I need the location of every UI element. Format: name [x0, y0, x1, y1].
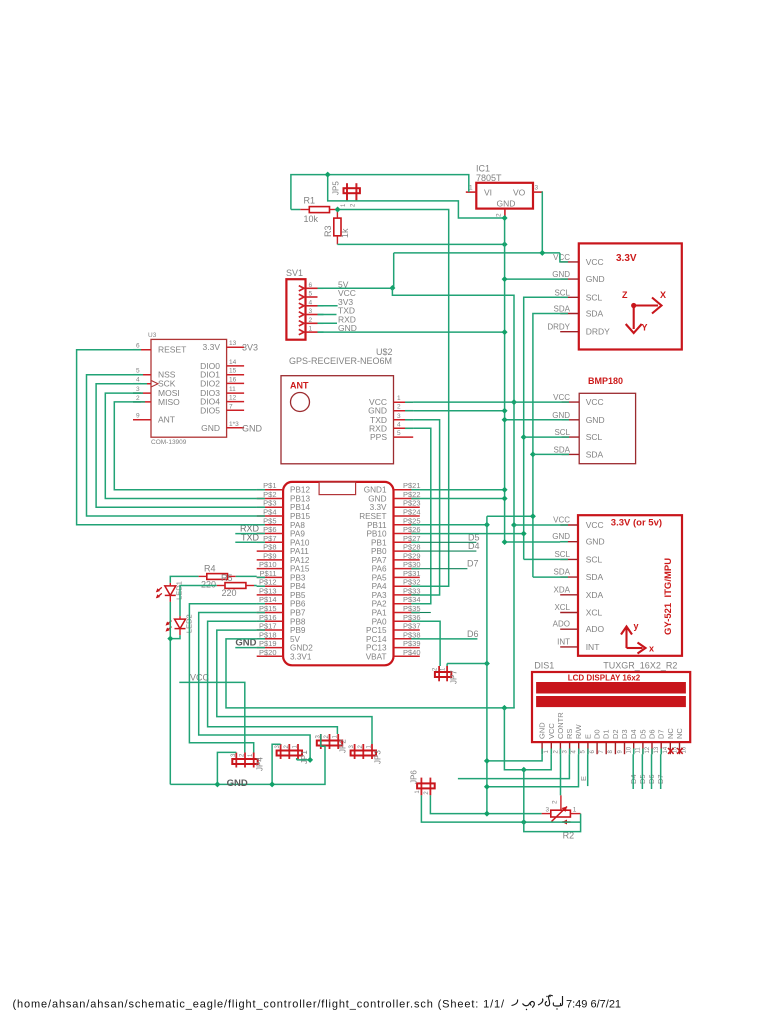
wire P$36 to JP7	[420, 621, 440, 666]
svg-text:IC1: IC1	[476, 164, 490, 174]
connector SV1	[286, 268, 357, 340]
svg-text:11: 11	[229, 386, 236, 393]
wire R1 right to P$32	[338, 210, 449, 587]
svg-text:JP4: JP4	[256, 757, 265, 771]
wire GPS GND	[413, 410, 504, 412]
svg-text:GND: GND	[242, 424, 263, 434]
resistor R1 10k	[300, 196, 337, 225]
svg-text:GND: GND	[586, 274, 605, 284]
wire NSS to P$4	[87, 375, 257, 516]
wire JP5 branch to IC1 GND	[328, 175, 505, 218]
svg-text:GND1: GND1	[364, 486, 387, 495]
svg-text:P$15: P$15	[259, 604, 277, 613]
junction BMP SDA	[530, 451, 536, 457]
IMU module GY-521 ITG/MPU	[552, 515, 682, 656]
svg-text:4: 4	[397, 421, 401, 428]
svg-text:GND: GND	[552, 411, 570, 420]
jumper JP2	[315, 734, 347, 753]
wire JP6 pin1 to R2 pin1	[421, 795, 580, 822]
wire to GY SDA	[533, 576, 560, 578]
svg-text:JP3: JP3	[374, 750, 383, 764]
junction R2 5V branch	[521, 819, 527, 825]
wire 5V to compass VCC	[559, 253, 561, 262]
wire SCL vertical	[524, 297, 561, 559]
junction P$25 jog	[484, 522, 490, 528]
potentiometer R2	[542, 795, 581, 840]
svg-text:NC: NC	[675, 728, 684, 739]
svg-text:R5: R5	[221, 573, 233, 583]
wire LCD D4 stub	[632, 754, 634, 789]
junction BMP GND / rail	[502, 417, 508, 423]
jumper JP4	[231, 753, 265, 772]
wire R3 bottom to GND rail	[337, 243, 504, 245]
svg-text:XDA: XDA	[554, 585, 571, 594]
wire overlaps on MCU right pin stubs	[411, 489, 420, 491]
junction P$26 SCL	[521, 531, 527, 537]
wire SDA vertical	[533, 314, 560, 578]
svg-text:D0: D0	[593, 729, 602, 739]
svg-text:P$24: P$24	[403, 508, 421, 517]
svg-text:GND: GND	[538, 722, 547, 739]
svg-text:1: 1	[544, 750, 550, 754]
wire LED1 cathode down	[169, 602, 171, 785]
svg-text:P$22: P$22	[403, 490, 421, 499]
wire RESET to P$5	[77, 350, 257, 525]
svg-text:GND: GND	[586, 415, 605, 425]
svg-text:4: 4	[572, 750, 578, 754]
wire TXD stub	[318, 314, 337, 316]
svg-text:PB9: PB9	[290, 626, 306, 635]
wire to BMP SCL	[524, 436, 562, 438]
svg-text:x: x	[649, 644, 654, 654]
svg-text:D2: D2	[611, 729, 620, 739]
wire GPS TXD to PA3	[413, 420, 439, 595]
svg-text:VO: VO	[513, 188, 526, 198]
svg-text:SDA: SDA	[586, 309, 604, 319]
svg-text:PB6: PB6	[290, 600, 306, 609]
jumper JP7	[433, 666, 459, 684]
svg-text:PA10: PA10	[290, 538, 310, 547]
svg-text:PB1: PB1	[371, 538, 387, 547]
svg-text:XDA: XDA	[586, 590, 604, 600]
svg-text:PA2: PA2	[372, 600, 387, 609]
resistor R4 220	[199, 564, 236, 590]
svg-text:P$25: P$25	[403, 516, 421, 525]
svg-text:1k: 1k	[340, 228, 350, 238]
wire to GY-521 VCC	[514, 524, 560, 526]
svg-text:P$10: P$10	[259, 560, 277, 569]
wire LCD GND	[487, 754, 542, 761]
svg-text:P$8: P$8	[263, 543, 276, 552]
wire overlaps on MCU left pin stubs	[257, 489, 265, 491]
wire P$17 to JP3	[217, 630, 372, 744]
svg-text:VCC: VCC	[190, 673, 210, 683]
svg-text:PA0: PA0	[372, 617, 387, 626]
voltage regulator IC1 7805T	[466, 164, 543, 219]
svg-text:P$5: P$5	[263, 516, 276, 525]
svg-text:PA3: PA3	[372, 591, 387, 600]
svg-text:8: 8	[608, 750, 614, 754]
wire R4 to P$11	[236, 575, 257, 577]
svg-text:7:49 6/7/21: 7:49 6/7/21	[566, 999, 621, 1011]
svg-text:P$1: P$1	[263, 481, 276, 490]
svg-text:SCL: SCL	[554, 428, 570, 437]
svg-text:3: 3	[397, 413, 401, 420]
svg-text:ANT: ANT	[290, 381, 309, 391]
svg-text:GY-521 ITG/MPU: GY-521 ITG/MPU	[663, 558, 674, 635]
svg-text:3.3V: 3.3V	[616, 253, 637, 264]
svg-text:PA9: PA9	[290, 530, 305, 539]
wire P$16 to JP2	[208, 621, 338, 734]
svg-text:P$7: P$7	[263, 534, 276, 543]
svg-text:y: y	[634, 621, 639, 631]
svg-text:PC14: PC14	[366, 635, 387, 644]
junction SV1 GND / rail	[502, 329, 508, 335]
svg-text:P$27: P$27	[403, 534, 421, 543]
wire P$25 row	[420, 524, 487, 526]
svg-text:E: E	[579, 776, 588, 781]
svg-text:SDA: SDA	[554, 568, 571, 577]
junction GND bracket JP1	[269, 781, 275, 787]
svg-text:LED1: LED1	[175, 581, 184, 600]
junction LED cathodes	[167, 636, 173, 642]
barometer BMP180	[552, 376, 635, 464]
svg-text:PB15: PB15	[290, 512, 310, 521]
wire 5V down to SV1	[393, 253, 395, 288]
svg-text:GND: GND	[227, 778, 248, 789]
svg-text:6: 6	[136, 343, 140, 350]
svg-text:PA8: PA8	[290, 521, 305, 530]
svg-text:P$13: P$13	[259, 586, 277, 595]
svg-text:PA7: PA7	[372, 556, 387, 565]
wire LED2 cathode join	[170, 635, 180, 639]
svg-text:PC13: PC13	[366, 644, 387, 653]
junction P$15 wire	[307, 757, 313, 763]
svg-text:PB8: PB8	[290, 617, 306, 626]
svg-text:D1: D1	[602, 729, 611, 739]
compass axis icon	[626, 298, 662, 334]
svg-text:VI: VI	[484, 188, 492, 198]
wire LCD D7 stub	[660, 754, 662, 789]
svg-text:14: 14	[229, 359, 237, 366]
wire SV1 GND	[318, 331, 505, 333]
svg-text:9: 9	[617, 750, 623, 754]
svg-text:1: 1	[397, 395, 401, 402]
compass module (3.3V)	[547, 243, 681, 349]
svg-text:RS: RS	[565, 729, 574, 739]
svg-text:PA11: PA11	[290, 547, 309, 556]
svg-text:JP2: JP2	[338, 739, 347, 753]
svg-text:5: 5	[397, 430, 401, 437]
svg-text:R4: R4	[204, 564, 216, 574]
svg-text:2: 2	[433, 667, 439, 671]
svg-text:PC15: PC15	[366, 626, 387, 635]
wire R4 to LED1 anode	[170, 576, 198, 583]
wire P$18 5V	[226, 639, 515, 708]
svg-text:D5: D5	[638, 729, 647, 739]
svg-text:5: 5	[309, 291, 313, 298]
wire GND to JP4 pin3	[217, 752, 236, 784]
svg-text:PB12: PB12	[290, 486, 310, 495]
svg-text:SDA: SDA	[586, 572, 604, 582]
svg-text:PPS: PPS	[370, 432, 387, 442]
wire LCD R/W	[487, 754, 579, 787]
junction LCD GND	[484, 758, 490, 764]
junction 5V branch to LCD	[501, 705, 507, 711]
svg-text:2: 2	[309, 317, 313, 324]
svg-text:SCL: SCL	[586, 292, 603, 302]
svg-text:P$14: P$14	[259, 595, 277, 604]
svg-text:13: 13	[229, 340, 237, 347]
svg-text:E: E	[583, 734, 592, 739]
svg-text:1: 1	[573, 807, 577, 814]
junction SV1 5V pin	[389, 285, 395, 291]
svg-text:1: 1	[469, 185, 473, 192]
wire overlaps on BMP pin stubs	[562, 401, 569, 403]
wire overlaps on GPS pin stubs	[405, 401, 413, 403]
svg-text:JP6: JP6	[410, 770, 419, 784]
wire P$25 jog to SDA	[487, 515, 533, 517]
svg-text:1: 1	[415, 790, 421, 794]
svg-text:PA5: PA5	[372, 573, 387, 582]
svg-text:6: 6	[309, 282, 313, 289]
svg-text:P$6: P$6	[263, 525, 276, 534]
svg-text:P$20: P$20	[259, 648, 277, 657]
svg-text:6: 6	[590, 750, 596, 754]
svg-text:PA12: PA12	[290, 556, 310, 565]
wire R5 to LED2 anode	[180, 586, 217, 617]
svg-text:P$12: P$12	[259, 578, 277, 587]
svg-text:3: 3	[562, 750, 568, 754]
wire GND to JP1 pin3	[272, 744, 281, 784]
junction contrast net bottom	[484, 811, 490, 817]
wire D4 stub	[420, 550, 477, 552]
svg-text:GPS-RECEIVER-NEO6M: GPS-RECEIVER-NEO6M	[289, 356, 392, 366]
svg-text:2: 2	[496, 213, 503, 217]
wire GY GND	[505, 541, 561, 543]
wire SV1 pin6 5V	[318, 287, 393, 289]
svg-text:P$21: P$21	[403, 481, 421, 490]
svg-text:3.3V (or 5v): 3.3V (or 5v)	[611, 518, 662, 529]
wire to R1 left	[291, 209, 300, 211]
junction R3/GND rail	[502, 241, 508, 247]
svg-text:VCC: VCC	[553, 516, 570, 525]
svg-text:R3: R3	[323, 225, 333, 237]
svg-text:3: 3	[309, 308, 313, 315]
junction compass GND / rail	[502, 276, 508, 282]
svg-text:D6: D6	[648, 729, 657, 739]
svg-text:PA6: PA6	[372, 565, 387, 574]
svg-text:3V3: 3V3	[242, 343, 258, 353]
svg-text:JP7: JP7	[450, 670, 459, 684]
svg-text:PA1: PA1	[372, 608, 387, 617]
svg-text:16: 16	[229, 376, 237, 383]
jumper JP3	[349, 744, 383, 764]
svg-text:U3: U3	[148, 332, 157, 339]
wire BMP GND	[505, 419, 562, 421]
wire 5V rail to bottom	[513, 525, 515, 708]
svg-text:220: 220	[222, 588, 237, 598]
wire D6 stub	[420, 638, 478, 640]
wire RXD stub	[235, 533, 256, 535]
wire JP7 pin1 up	[446, 664, 448, 667]
svg-text:7: 7	[229, 403, 233, 410]
svg-text:VCC: VCC	[553, 393, 570, 402]
svg-text:12: 12	[645, 746, 651, 753]
MCU blue pill (left pins P$1-P$20, right pins P$21-P$40)	[257, 481, 421, 665]
svg-text:INT: INT	[586, 642, 600, 652]
svg-text:P$3: P$3	[263, 499, 276, 508]
wire LCD VCC to 5V branch	[504, 708, 551, 770]
junction GY GND corner	[502, 539, 508, 545]
svg-text:GND: GND	[552, 532, 570, 541]
svg-text:3: 3	[546, 807, 550, 814]
svg-text:5: 5	[581, 750, 587, 754]
svg-text:PB10: PB10	[366, 530, 386, 539]
svg-text:GND: GND	[368, 494, 386, 503]
svg-text:SDA: SDA	[554, 305, 571, 314]
svg-text:NC: NC	[666, 728, 675, 739]
wire VCC row	[413, 401, 561, 403]
svg-text:P$34: P$34	[403, 595, 421, 604]
svg-text:VCC: VCC	[586, 257, 604, 267]
svg-text:P$40: P$40	[403, 648, 421, 657]
junction IC1 GND pin	[502, 215, 508, 221]
wire JP1 pin1 bottom	[296, 758, 298, 760]
LED LED1	[156, 581, 184, 602]
wire LCD D6 stub	[651, 754, 653, 789]
svg-text:P$19: P$19	[259, 639, 277, 648]
svg-text:RESET: RESET	[359, 512, 386, 521]
wire overlaps on LCD pin stubs	[541, 749, 543, 755]
svg-text:PB4: PB4	[290, 582, 306, 591]
jumper JP5	[332, 181, 360, 207]
svg-text:D7: D7	[467, 559, 479, 569]
svg-text:12: 12	[229, 395, 237, 402]
wire GND stub	[235, 647, 256, 649]
svg-text:2: 2	[397, 404, 401, 411]
svg-text:XCL: XCL	[554, 603, 570, 612]
svg-text:11: 11	[636, 747, 642, 754]
svg-text:3.3V1: 3.3V1	[290, 652, 312, 661]
wire JP7 pin1 right	[447, 663, 487, 665]
svg-text:(home/ahsan/ahsan/schematic_ea: (home/ahsan/ahsan/schematic_eagle/flight…	[13, 999, 506, 1011]
svg-text:P$11: P$11	[260, 569, 277, 578]
junction P$21 GND	[502, 487, 508, 493]
junction VO/5V rail	[539, 250, 545, 256]
svg-text:2: 2	[351, 203, 357, 207]
svg-text:R1: R1	[304, 196, 316, 206]
wire P$14 to JP4	[189, 604, 256, 753]
svg-text:7805T: 7805T	[476, 173, 502, 183]
svg-text:PB14: PB14	[290, 503, 310, 512]
LCD display DIS1 TUXGR_16X2_R2	[532, 661, 690, 755]
jumper JP6	[410, 770, 435, 796]
junction GPS GND / rail	[502, 408, 508, 414]
svg-text:GND2: GND2	[290, 644, 313, 653]
junction top rail / JP5 branch	[325, 172, 331, 178]
svg-text:3.3V: 3.3V	[370, 503, 387, 512]
wire overlaps on compass pin stubs	[560, 261, 568, 263]
svg-text:P$37: P$37	[403, 622, 421, 631]
junction GY VCC corner	[511, 522, 517, 528]
svg-text:15: 15	[229, 368, 237, 375]
svg-text:SCL: SCL	[554, 550, 570, 559]
svg-text:P$36: P$36	[403, 613, 421, 622]
svg-text:1: 1	[441, 667, 447, 671]
svg-text:TUXGR_16X2_R2: TUXGR_16X2_R2	[603, 661, 677, 671]
svg-text:DRDY: DRDY	[547, 323, 570, 332]
wire LCD D5 stub	[641, 754, 643, 789]
junction LCD R/W	[484, 784, 490, 790]
svg-text:VCC: VCC	[586, 520, 604, 530]
svg-text:R/W: R/W	[574, 724, 583, 740]
svg-text:PB7: PB7	[290, 608, 306, 617]
svg-text:DIO2: DIO2	[200, 378, 220, 388]
svg-text:P$9: P$9	[263, 551, 276, 560]
svg-text:SCL: SCL	[586, 432, 603, 442]
wire P$35 stub	[420, 612, 431, 614]
svg-text:P$4: P$4	[263, 508, 276, 517]
wire to GY SCL	[524, 558, 561, 560]
wire overlaps on SV1 pin stubs	[318, 287, 324, 289]
junction P$22 GND	[502, 496, 508, 502]
svg-text:D6: D6	[467, 629, 479, 639]
wire JP6 pin2 / R2 pin3	[430, 795, 541, 813]
svg-text:P$18: P$18	[259, 630, 277, 639]
svg-text:LCD DISPLAY 16x2: LCD DISPLAY 16x2	[568, 674, 641, 683]
wire P$15 to JP1 pin1	[199, 613, 310, 760]
junction LCD VCC / R2 branch	[521, 767, 527, 773]
svg-text:SCL: SCL	[554, 288, 570, 297]
svg-text:P$32: P$32	[403, 578, 421, 587]
svg-text:SDA: SDA	[586, 449, 604, 459]
wire to BMP SDA	[533, 453, 562, 455]
svg-text:1: 1	[341, 203, 347, 207]
wire GND bottom rail	[170, 734, 325, 784]
svg-text:VCC: VCC	[586, 397, 604, 407]
svg-text:5V: 5V	[290, 635, 301, 644]
IMU axis icon	[621, 627, 646, 654]
svg-text:D3: D3	[620, 729, 629, 739]
wire SCK to P$3	[96, 384, 257, 508]
svg-text:2: 2	[553, 750, 559, 754]
GPS module U$2 GPS-RECEIVER-NEO6M	[281, 347, 413, 464]
svg-text:4: 4	[309, 299, 313, 306]
svg-text:PB5: PB5	[290, 591, 306, 600]
junction BMP SCL	[521, 434, 527, 440]
svg-text:PB11: PB11	[367, 521, 387, 530]
jumper JP1	[275, 744, 309, 764]
svg-text:XCL: XCL	[586, 608, 603, 618]
junction GND bracket JP4	[214, 781, 220, 787]
wire LCD RS	[458, 754, 570, 778]
svg-text:14: 14	[663, 746, 669, 753]
wire P$26 to SCL	[420, 533, 524, 535]
svg-text:ADO: ADO	[553, 620, 570, 629]
svg-text:P$23: P$23	[403, 499, 421, 508]
svg-text:3.3V: 3.3V	[203, 342, 221, 352]
svg-text:P$16: P$16	[259, 613, 277, 622]
wire VCC to JP4 pin2	[179, 682, 245, 752]
svg-text:P$17: P$17	[259, 622, 277, 631]
wire GPS RXD to PA2	[413, 428, 431, 604]
svg-text:JP1: JP1	[300, 750, 309, 764]
svg-text:VCC: VCC	[553, 253, 570, 262]
svg-text:10k: 10k	[304, 214, 319, 224]
svg-text:P$28: P$28	[403, 543, 421, 552]
svg-text:2: 2	[136, 395, 140, 402]
